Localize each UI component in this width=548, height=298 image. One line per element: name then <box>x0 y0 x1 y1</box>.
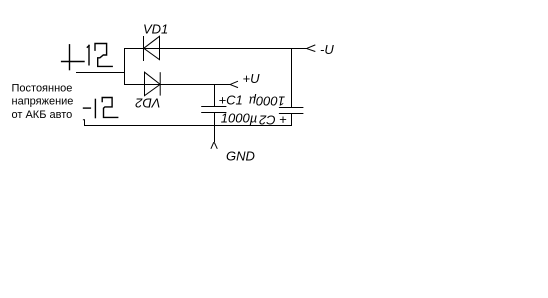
wire from +12 input <box>76 72 125 74</box>
svg-text:от АКБ авто: от АКБ авто <box>12 109 73 121</box>
svg-text:VD2: VD2 <box>135 96 161 111</box>
svg-text:VD1: VD1 <box>143 22 168 37</box>
wire stub from -12 input <box>83 120 85 126</box>
svg-text:-U: -U <box>320 42 334 57</box>
terminal arrow GND <box>211 142 217 149</box>
wire C2 top vertical (from -U rail) <box>291 48 293 108</box>
svg-text:+C1: +C1 <box>219 93 243 108</box>
svg-text:Постоянное: Постоянное <box>12 83 73 95</box>
wire VD2 branch (to +U) <box>124 84 231 86</box>
wire C1 to ground rail and GND stub <box>214 113 216 143</box>
wire junction vertical (+12 split to VD1/VD2) <box>124 48 126 85</box>
capacitor C2 plates <box>279 108 304 114</box>
svg-text:1000µ: 1000µ <box>249 94 285 109</box>
terminal arrow -U <box>307 45 315 52</box>
svg-text:+U: +U <box>243 71 261 86</box>
terminal label -12 (hand-drawn digits) <box>84 98 118 118</box>
svg-text:1000µ: 1000µ <box>221 110 257 125</box>
diode VD2 (cathode right) <box>145 72 161 95</box>
wire +U rail down to C1 <box>214 84 216 107</box>
terminal arrow +U <box>231 81 239 87</box>
svg-text:напряжение: напряжение <box>12 96 74 108</box>
wire C2 to ground rail <box>291 114 293 127</box>
wire VD1 branch (top rail to -U) <box>124 48 307 50</box>
ground rail wire <box>84 125 292 127</box>
terminal label +12 (hand-drawn digits) <box>62 44 113 70</box>
diode VD1 (cathode left) <box>144 36 160 61</box>
svg-text:GND: GND <box>226 148 255 163</box>
capacitor C1 plates <box>201 107 226 113</box>
